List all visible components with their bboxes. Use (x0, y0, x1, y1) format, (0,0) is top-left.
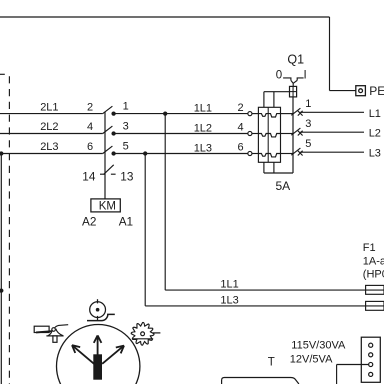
svg-text:1L1: 1L1 (220, 279, 238, 291)
svg-text:1L3: 1L3 (194, 142, 212, 154)
svg-text:3: 3 (123, 120, 129, 132)
svg-text:115V/30VA: 115V/30VA (291, 340, 346, 352)
svg-text:T: T (268, 356, 275, 368)
svg-text:1L1: 1L1 (194, 102, 212, 114)
svg-text:Q1: Q1 (287, 52, 304, 66)
svg-text:1A-at: 1A-at (363, 256, 384, 268)
svg-text:A1: A1 (119, 215, 133, 229)
svg-text:12V/5VA: 12V/5VA (290, 353, 333, 365)
svg-text:1L3: 1L3 (220, 294, 238, 306)
svg-text:2: 2 (238, 102, 244, 114)
svg-text:5A: 5A (276, 179, 291, 193)
svg-text:(HP05: (HP05 (363, 268, 384, 280)
svg-text:5: 5 (305, 138, 311, 150)
svg-text:13: 13 (120, 169, 134, 183)
svg-text:1: 1 (305, 98, 311, 110)
svg-text:1L2: 1L2 (194, 122, 212, 134)
svg-text:5: 5 (123, 140, 129, 152)
svg-text:6: 6 (87, 141, 93, 153)
svg-text:4: 4 (87, 121, 93, 133)
svg-text:3: 3 (305, 118, 311, 130)
svg-text:KM: KM (99, 201, 116, 213)
svg-text:L3: L3 (369, 148, 381, 160)
svg-text:2: 2 (87, 101, 93, 113)
svg-text:F1: F1 (363, 242, 376, 254)
svg-text:0: 0 (276, 70, 282, 82)
svg-text:PE: PE (369, 84, 384, 98)
svg-text:4: 4 (238, 122, 244, 134)
svg-text:L2: L2 (369, 128, 381, 140)
svg-text:6: 6 (238, 142, 244, 154)
svg-text:2L1: 2L1 (40, 101, 58, 113)
svg-text:1: 1 (123, 100, 129, 112)
svg-text:14: 14 (82, 169, 96, 183)
svg-text:2L2: 2L2 (40, 121, 58, 133)
svg-text:I: I (304, 70, 307, 82)
svg-text:A2: A2 (82, 215, 96, 229)
svg-text:2L3: 2L3 (40, 141, 58, 153)
svg-text:L1: L1 (369, 108, 381, 120)
